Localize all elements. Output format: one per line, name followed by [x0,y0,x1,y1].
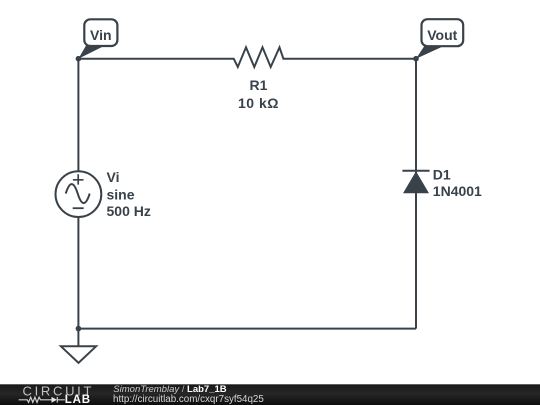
minus sign [73,207,84,209]
node Vout flag tail [416,45,446,59]
ground stub [77,329,79,347]
wire right [415,59,417,329]
diode D1 triangle [403,171,429,193]
node Vout dot [413,56,419,62]
node Vin flag box [84,19,117,46]
svg-text:Vi: Vi [107,169,120,185]
ground triangle [61,346,96,363]
svg-text:D1: D1 [433,167,451,183]
wire left upper [77,59,79,172]
wire top with resistor R1 zigzag [78,47,416,67]
svg-text:http://circuitlab.com/cxqr7syf: http://circuitlab.com/cxqr7syf54q25 [113,394,264,405]
node Vout flag box [422,19,464,46]
logo diode triangle [52,397,57,403]
voltage source V1 circle [56,171,102,217]
node Vin dot [76,56,82,62]
svg-text:LAB: LAB [65,394,91,405]
svg-text:500 Hz: 500 Hz [107,203,151,219]
wire left lower [77,217,79,329]
svg-text:1N4001: 1N4001 [433,183,482,199]
svg-text:10 kΩ: 10 kΩ [238,95,279,111]
node ground dot [76,326,82,332]
sine symbol [66,184,90,203]
svg-text:Vin: Vin [90,27,112,43]
svg-text:R1: R1 [250,77,268,93]
plus sign [73,174,84,184]
node Vin flag tail [78,46,105,59]
diode D1 cathode bar [402,170,429,172]
wire bottom [78,328,416,330]
svg-text:sine: sine [107,186,135,202]
logo schematic line [19,397,65,403]
svg-text:Vout: Vout [427,27,457,43]
